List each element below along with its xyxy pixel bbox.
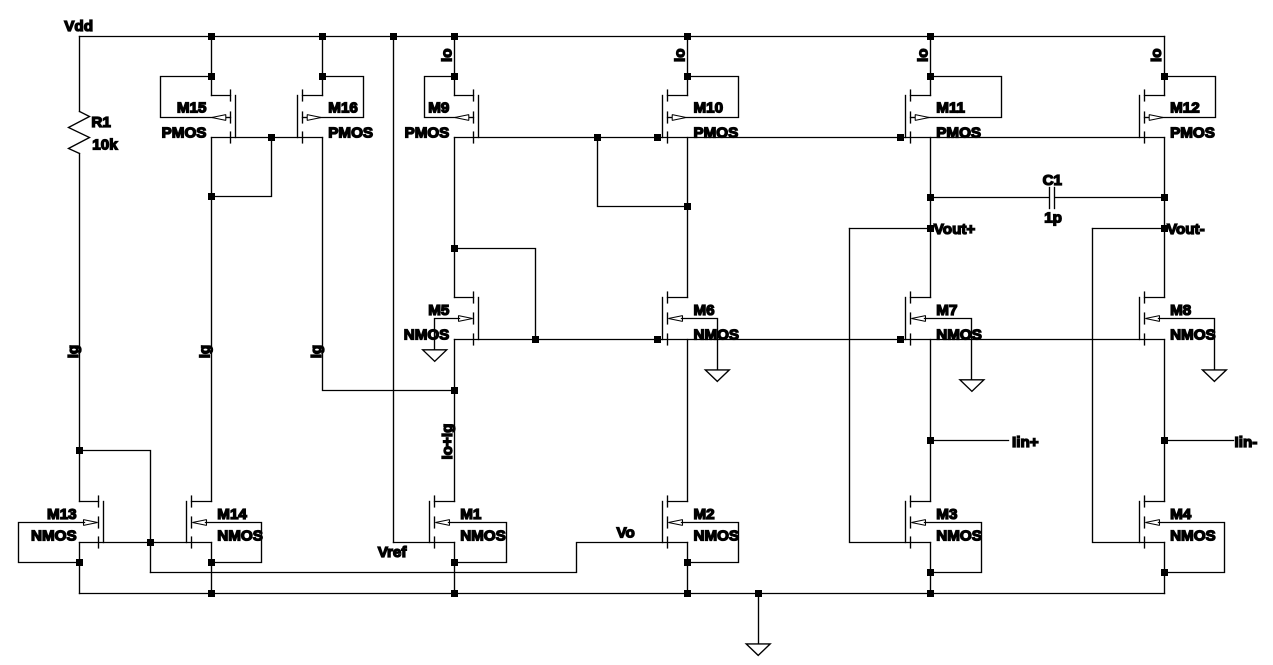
junction M16 column to Io+Ig (451, 387, 458, 394)
svg-text:NMOS: NMOS (936, 326, 982, 343)
svg-text:NMOS: NMOS (1170, 326, 1216, 343)
junction Vdd-M10 drain (684, 33, 691, 40)
junction Vdd-M15 drain (208, 33, 215, 40)
wire Vo tap from M13 drain (80, 451, 151, 573)
junction Vdd-M16 drain (319, 33, 326, 40)
junction M12 gate tie (1161, 73, 1168, 80)
svg-text:C1: C1 (1043, 172, 1063, 189)
svg-text:M6: M6 (694, 302, 715, 319)
svg-text:PMOS: PMOS (694, 125, 739, 142)
wire M12 source column down to M8 (1164, 138, 1166, 298)
svg-text:M12: M12 (1170, 99, 1200, 116)
svg-text:Io: Io (672, 49, 689, 63)
svg-text:Io: Io (438, 49, 455, 63)
node Iin+ wire and label (931, 440, 1009, 442)
node Vout- junction (1161, 225, 1168, 232)
svg-text:Iin-: Iin- (1235, 434, 1258, 451)
svg-text:M5: M5 (428, 302, 450, 319)
transistor M12 PMOS symbol (1140, 90, 1165, 143)
ground (960, 380, 984, 392)
resistor R1 (79, 37, 81, 112)
wire Vref / M1 bottom line (394, 542, 455, 544)
wire M8 gate to ground (1159, 319, 1215, 370)
ground (705, 370, 729, 382)
node Iin+ junction (927, 437, 934, 444)
wire ground rail y=593 (80, 593, 1165, 595)
wire M6 source column down to M2 (687, 340, 689, 502)
svg-text:M3: M3 (936, 506, 957, 523)
wire M13 source column to rail (79, 543, 81, 594)
svg-text:R1: R1 (91, 114, 111, 131)
wire M15 drain to Vdd (211, 37, 213, 96)
node Vout- wire and label (1093, 228, 1165, 230)
svg-text:PMOS: PMOS (936, 125, 981, 142)
wire M10 drain to Vdd (687, 37, 689, 96)
wire Vo line to M2 (151, 543, 688, 573)
wire link rail to M10 source column (598, 138, 688, 207)
wire M15-M16 bottom line (212, 137, 323, 139)
wire M10 gate loop (687, 77, 739, 118)
wire ground stem bottom (758, 594, 760, 644)
svg-text:PMOS: PMOS (405, 125, 450, 142)
wire Vdd rail (80, 36, 1165, 38)
transistor M7 NMOS symbol (906, 292, 931, 345)
wire M1 source column to rail (454, 543, 456, 594)
svg-text:NMOS: NMOS (217, 527, 263, 544)
svg-text:PMOS: PMOS (328, 125, 373, 142)
wire Vref column x=393 (393, 37, 395, 543)
wire M3 source column to rail (930, 543, 932, 594)
svg-text:M11: M11 (936, 99, 965, 116)
ground (746, 644, 770, 656)
wire M16 drain to Vdd (322, 37, 324, 96)
junction M11 gate tie (927, 73, 934, 80)
svg-text:M14: M14 (217, 506, 247, 523)
svg-text:PMOS: PMOS (1170, 125, 1215, 142)
junction link-M10 source column (684, 203, 691, 210)
wire M4 gate loop (1159, 523, 1225, 573)
wire M3 gate loop (925, 523, 982, 573)
wire M14 gate loop (206, 523, 262, 563)
wire M1 gate loop (449, 523, 507, 563)
svg-text:Vout+: Vout+ (934, 221, 976, 238)
junction M5 drain tie (451, 245, 458, 252)
svg-text:Ig: Ig (308, 345, 325, 359)
svg-text:M15: M15 (177, 99, 207, 116)
transistor M14 NMOS symbol (187, 496, 212, 548)
transistor M4 NMOS symbol (1140, 496, 1165, 548)
svg-text:NMOS: NMOS (1170, 527, 1216, 544)
svg-text:M16: M16 (328, 99, 358, 116)
wire M9 gate loop (425, 77, 456, 118)
wire M4 source column to rail (1164, 543, 1166, 594)
junction M14 gate tie (208, 559, 215, 566)
wire M8 source column down to M4 (1164, 340, 1166, 502)
node Vout+ junction (927, 225, 934, 232)
transistor M10 PMOS symbol (663, 90, 688, 143)
svg-text:M8: M8 (1170, 302, 1191, 319)
svg-text:M9: M9 (428, 99, 449, 116)
junction Vo cross M13/M14 line (147, 539, 154, 546)
transistor M5 NMOS symbol (455, 292, 479, 345)
svg-text:Io+Ig: Io+Ig (439, 424, 456, 460)
svg-text:PMOS: PMOS (162, 125, 207, 142)
junction M15 source loop (208, 193, 215, 200)
wire M10 source column down to M6 (687, 138, 689, 298)
svg-text:10k: 10k (92, 137, 118, 154)
ground (1202, 370, 1226, 382)
svg-text:Vdd: Vdd (64, 18, 93, 35)
junction M16 gate tie (319, 73, 326, 80)
wire M11 drain to Vdd (930, 37, 932, 96)
wire PMOS row bottom rail y=137 (455, 137, 1165, 139)
transistor M11 PMOS symbol (906, 90, 931, 143)
svg-text:NMOS: NMOS (936, 527, 982, 544)
svg-text:NMOS: NMOS (460, 527, 506, 544)
svg-text:Iin+: Iin+ (1012, 434, 1039, 451)
svg-text:NMOS: NMOS (694, 326, 740, 343)
node Iin- wire and label (1165, 440, 1234, 442)
wire M7 gate to ground (925, 319, 972, 380)
wire Vout- feedback column to M4 (1093, 229, 1165, 543)
junction M5 drain tie to rail2 (532, 336, 539, 343)
junction Vdd-M9 drain (451, 33, 458, 40)
wire M5 source column down (Io+Ig) (454, 340, 456, 502)
wire M2 source column to rail (687, 543, 689, 594)
junction M2 gate tie (684, 559, 691, 566)
junction rail M14 (208, 590, 215, 597)
svg-text:Ig: Ig (196, 345, 213, 359)
junction Vdd-M11 drain (927, 33, 934, 40)
transistor M2 NMOS symbol (663, 496, 688, 548)
junction rail M2 (684, 590, 691, 597)
transistor M15 PMOS symbol (212, 90, 236, 143)
svg-text:Vout-: Vout- (1167, 221, 1205, 238)
wire NMOS row2 source rail y=340 (455, 339, 1165, 341)
junction M10 bulk (654, 134, 661, 141)
svg-text:1p: 1p (1044, 209, 1062, 226)
transistor M16 PMOS symbol (298, 90, 323, 143)
wire M11 gate loop (929, 77, 1002, 118)
wire M15 source column x=211 (211, 138, 213, 502)
capacitor C1 (931, 197, 1049, 199)
junction M11 bulk (897, 134, 904, 141)
wire M5 drain-gate link (455, 249, 536, 340)
transistor M6 NMOS symbol (663, 292, 688, 345)
wire bulk loop M15/M16 (212, 138, 272, 197)
junction M15/M16 source line (268, 134, 275, 141)
wire M16 source column to M5 source node (323, 138, 455, 391)
ground (423, 350, 447, 362)
wire M5 gate to ground (435, 319, 460, 350)
svg-text:Vo: Vo (617, 524, 635, 541)
junction M6 bulk (654, 336, 661, 343)
node Iin- junction (1161, 437, 1168, 444)
junction M1 gate tie (451, 559, 458, 566)
junction Vo tap (76, 447, 83, 454)
wire M12 gate loop (1163, 77, 1216, 118)
junction rail ground stem (755, 590, 762, 597)
svg-text:M2: M2 (694, 506, 715, 523)
svg-text:NMOS: NMOS (31, 527, 77, 544)
junction C1 right (1161, 194, 1168, 201)
transistor M13 NMOS symbol (80, 496, 104, 548)
junction rail1 link (594, 134, 601, 141)
wire R1 bottom / Ig column x=79 (79, 154, 81, 502)
svg-text:Vref: Vref (378, 544, 408, 561)
junction M10 gate tie (684, 73, 691, 80)
svg-text:NMOS: NMOS (694, 527, 740, 544)
svg-text:Ig: Ig (65, 345, 82, 359)
svg-text:NMOS: NMOS (404, 326, 450, 343)
svg-text:Io: Io (1148, 49, 1165, 63)
transistor M3 NMOS symbol (906, 496, 931, 548)
svg-text:M7: M7 (936, 302, 957, 319)
junction rail M1 (451, 590, 458, 597)
wire M13-M14 bottom line (80, 542, 212, 544)
junction Vdd-Vref column (390, 33, 397, 40)
junction M9 gate tie (451, 73, 458, 80)
wire M12 drain to Vdd (1164, 37, 1166, 96)
wire M13 gate loop (19, 523, 85, 563)
junction M4 gate tie (1161, 569, 1168, 576)
wire Vout+ feedback column to M3 (850, 229, 931, 543)
svg-text:Io: Io (914, 49, 931, 63)
junction rail M3 (927, 590, 934, 597)
junction M7 bulk (897, 336, 904, 343)
svg-text:M13: M13 (47, 506, 77, 523)
junction M15 gate tie (208, 73, 215, 80)
transistor M8 NMOS symbol (1140, 292, 1165, 345)
wire M6 gate to ground (682, 319, 718, 370)
transistor M9 PMOS symbol (455, 90, 479, 143)
junction M3 gate tie (927, 569, 934, 576)
wire M15 gate loop (161, 77, 213, 118)
wire M7 source column down to M3 (930, 340, 932, 502)
wire M14 source column to rail (211, 543, 213, 594)
junction M13 gate tie (76, 559, 83, 566)
wire M16 gate loop (321, 77, 364, 118)
wire M9 source column down to M5 (454, 138, 456, 298)
node Vout+ wire and label (850, 228, 931, 230)
wire M9 drain to Vdd (454, 37, 456, 96)
svg-text:M1: M1 (460, 506, 482, 523)
transistor M1 NMOS symbol (430, 496, 455, 548)
wire M11 source column down to M7 (930, 138, 932, 298)
junction C1 left (927, 194, 934, 201)
svg-text:M10: M10 (694, 99, 724, 116)
svg-text:M4: M4 (1170, 506, 1192, 523)
wire M2 gate loop (682, 523, 739, 563)
